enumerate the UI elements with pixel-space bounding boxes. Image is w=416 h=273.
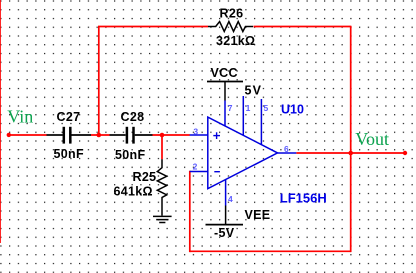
wire C27 to C28 (through node A) — [91, 134, 110, 136]
svg-text:5: 5 — [264, 103, 269, 113]
terminal Vout — [403, 151, 407, 155]
wire R26 to top right corner — [254, 26, 351, 28]
left screenshot-edge red line — [0, 0, 2, 243]
svg-text:641kΩ: 641kΩ — [114, 185, 153, 199]
ground — [153, 216, 172, 222]
wire top left to R26 — [98, 26, 208, 28]
wire C28 to op-amp input (through node B) — [153, 134, 190, 136]
op-amp plus sign — [213, 132, 220, 139]
svg-text:321kΩ: 321kΩ — [216, 34, 255, 48]
resistor R25 — [157, 159, 166, 215]
wire bottom feedback — [190, 250, 351, 252]
wire Vin to C27 — [9, 134, 47, 136]
svg-text:C28: C28 — [121, 110, 145, 124]
pin 4 stub — [225, 180, 227, 206]
wire node B down to R25 — [161, 135, 163, 159]
svg-text:Vin: Vin — [7, 106, 33, 126]
svg-text:VCC: VCC — [211, 66, 238, 80]
svg-text:50nF: 50nF — [54, 147, 84, 161]
terminal Vin — [7, 133, 11, 137]
VEE rail symbol — [206, 206, 244, 225]
wire feedback left vertical — [98, 27, 100, 136]
pin 3 stub — [190, 134, 208, 136]
capacitor C27 — [47, 127, 92, 144]
op-amp minus sign — [214, 171, 220, 173]
svg-text:5V: 5V — [245, 84, 263, 98]
svg-text:Vout: Vout — [355, 129, 389, 149]
svg-text:-5V: -5V — [214, 226, 235, 240]
svg-text:4: 4 — [228, 194, 233, 204]
svg-text:6: 6 — [284, 144, 289, 154]
svg-text:2: 2 — [193, 161, 198, 171]
svg-text:C27: C27 — [57, 110, 81, 124]
pin 2 stub — [190, 171, 208, 173]
svg-text:1: 1 — [246, 103, 251, 113]
junction node B (between C28 and op-amp) — [160, 133, 165, 138]
pin 7 stub — [224, 101, 226, 127]
resistor R26 — [208, 22, 253, 32]
capacitor C28 — [110, 127, 153, 144]
pin 6 stub — [278, 152, 297, 154]
svg-text:R25: R25 — [133, 170, 157, 184]
wire right vertical — [350, 26, 352, 252]
svg-text:7: 7 — [228, 103, 233, 113]
wire left feedback vertical to inverting input — [189, 171, 191, 252]
op-amp U10 triangle — [208, 117, 278, 189]
svg-text:VEE: VEE — [245, 208, 271, 222]
junction output node — [348, 151, 353, 156]
svg-text:50nF: 50nF — [115, 148, 145, 162]
svg-text:R26: R26 — [220, 7, 244, 21]
pin 1 stub — [242, 96, 244, 135]
svg-text:LF156H: LF156H — [280, 191, 327, 206]
svg-text:U10: U10 — [281, 103, 304, 117]
VCC rail symbol — [207, 82, 243, 101]
svg-text:3: 3 — [193, 126, 198, 136]
junction node A (between C27 and C28) — [97, 133, 102, 138]
wire output to Vout — [296, 152, 405, 154]
pin 5 stub — [260, 99, 262, 145]
